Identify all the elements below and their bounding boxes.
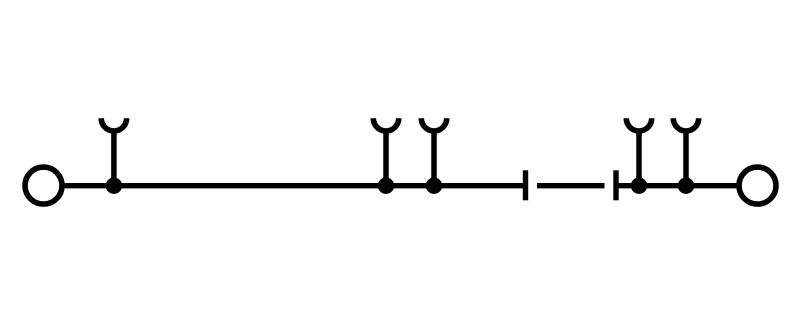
junction dot 4 <box>631 178 647 194</box>
test tap fork 3 arc <box>421 118 446 131</box>
test tap fork 4 stem <box>636 130 642 186</box>
test tap fork 5 stem <box>683 130 689 186</box>
junction dot 3 <box>426 178 442 194</box>
disconnect left bar <box>523 170 528 200</box>
junction dot 5 <box>678 178 694 194</box>
test tap fork 3 stem <box>431 130 437 186</box>
test tap fork 4 arc <box>626 118 651 131</box>
disconnect right bar <box>613 170 618 200</box>
test tap fork 5 arc <box>673 118 698 131</box>
disconnect link <box>537 183 605 188</box>
left terminal circle <box>25 167 62 204</box>
test tap fork 1 arc <box>101 118 126 131</box>
wire: disconnect right bar to right terminal <box>616 183 740 188</box>
junction dot 1 <box>106 178 122 194</box>
test tap fork 2 arc <box>373 118 398 131</box>
test tap fork 1 stem <box>111 130 117 186</box>
test tap fork 2 stem <box>383 130 389 186</box>
junction dot 2 <box>378 178 394 194</box>
right terminal circle <box>739 167 776 204</box>
wire: left terminal to disconnect left bar <box>62 183 524 188</box>
